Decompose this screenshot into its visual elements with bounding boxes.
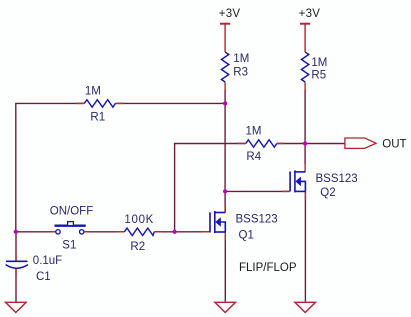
svg-text:100K: 100K bbox=[124, 214, 154, 226]
svg-text:S1: S1 bbox=[62, 239, 76, 251]
svg-text:0.1uF: 0.1uF bbox=[33, 255, 62, 267]
svg-text:ON/OFF: ON/OFF bbox=[50, 206, 93, 218]
svg-text:OUT: OUT bbox=[382, 138, 406, 150]
svg-text:R3: R3 bbox=[233, 66, 248, 78]
svg-text:R2: R2 bbox=[130, 241, 145, 253]
svg-text:R4: R4 bbox=[246, 151, 261, 163]
svg-text:1M: 1M bbox=[85, 86, 101, 98]
svg-text:1M: 1M bbox=[233, 53, 249, 65]
svg-text:FLIP/FLOP: FLIP/FLOP bbox=[239, 262, 297, 274]
svg-text:Q1: Q1 bbox=[239, 230, 254, 242]
svg-text:Q2: Q2 bbox=[320, 187, 335, 199]
svg-text:+3V: +3V bbox=[219, 8, 241, 20]
svg-text:BSS123: BSS123 bbox=[316, 173, 358, 185]
svg-text:R5: R5 bbox=[311, 70, 326, 82]
svg-text:1M: 1M bbox=[246, 126, 262, 138]
svg-text:R1: R1 bbox=[90, 111, 105, 123]
svg-text:C1: C1 bbox=[36, 271, 51, 283]
svg-text:1M: 1M bbox=[311, 57, 327, 69]
svg-text:BSS123: BSS123 bbox=[236, 214, 278, 226]
svg-text:+3V: +3V bbox=[299, 8, 321, 20]
